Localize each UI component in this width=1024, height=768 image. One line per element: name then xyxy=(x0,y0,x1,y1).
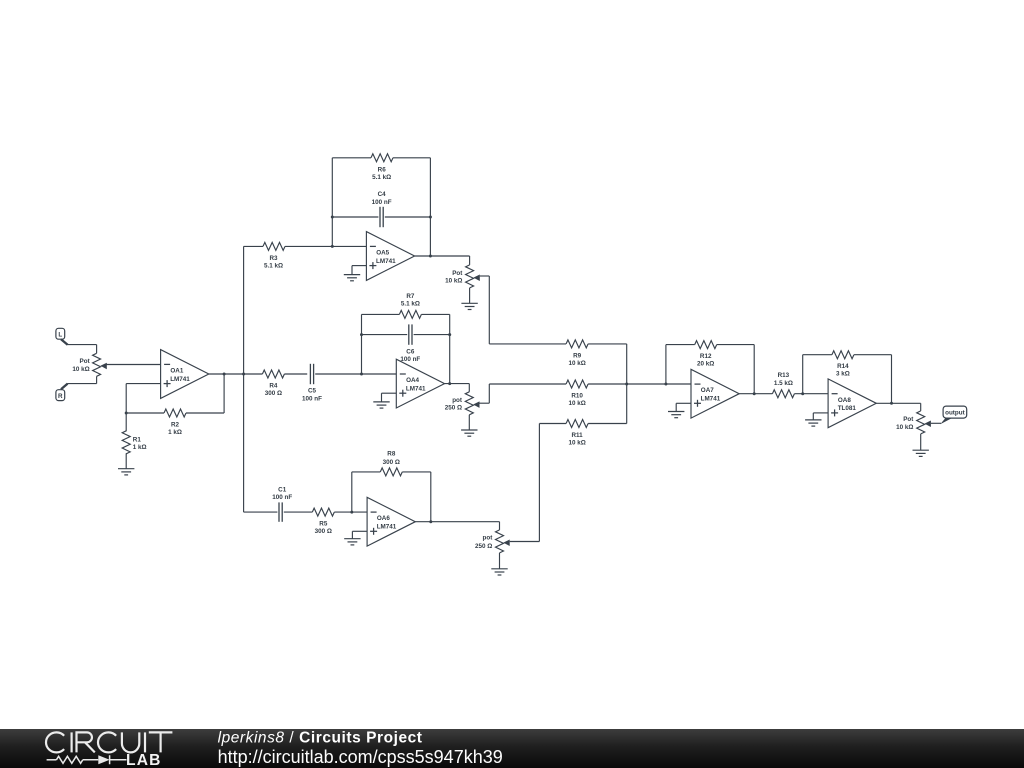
svg-text:LM741: LM741 xyxy=(701,396,721,403)
svg-text:R11: R11 xyxy=(571,432,583,439)
svg-text:R3: R3 xyxy=(269,255,278,262)
svg-text:100 nF: 100 nF xyxy=(302,395,322,402)
svg-text:LM741: LM741 xyxy=(406,386,426,393)
svg-text:R: R xyxy=(58,393,63,400)
svg-text:lperkins8 / Circuits Project: lperkins8 / Circuits Project xyxy=(218,729,423,746)
svg-text:output: output xyxy=(945,410,965,417)
svg-text:10 kΩ: 10 kΩ xyxy=(568,440,585,447)
svg-text:10 kΩ: 10 kΩ xyxy=(72,366,89,373)
svg-text:250 Ω: 250 Ω xyxy=(475,543,492,550)
svg-text:100 nF: 100 nF xyxy=(372,199,392,206)
svg-text:OA4: OA4 xyxy=(406,377,419,384)
svg-text:OA7: OA7 xyxy=(701,387,714,394)
svg-text:LM741: LM741 xyxy=(170,376,190,383)
svg-text:10 kΩ: 10 kΩ xyxy=(568,360,585,367)
svg-text:C4: C4 xyxy=(378,191,387,198)
svg-text:LAB: LAB xyxy=(126,752,162,768)
svg-text:OA8: OA8 xyxy=(838,397,851,404)
svg-text:R7: R7 xyxy=(406,293,415,300)
svg-text:TL081: TL081 xyxy=(838,405,857,412)
svg-text:Pot: Pot xyxy=(903,416,914,423)
svg-text:300 Ω: 300 Ω xyxy=(383,459,400,466)
svg-text:10 kΩ: 10 kΩ xyxy=(445,278,462,285)
svg-text:OA6: OA6 xyxy=(377,515,390,522)
svg-text:pot: pot xyxy=(483,534,494,541)
svg-text:R14: R14 xyxy=(837,363,849,370)
svg-text:10 kΩ: 10 kΩ xyxy=(568,400,585,407)
svg-text:OA5: OA5 xyxy=(376,250,389,257)
svg-text:R9: R9 xyxy=(573,352,582,359)
svg-text:5.1 kΩ: 5.1 kΩ xyxy=(401,301,420,308)
svg-text:300 Ω: 300 Ω xyxy=(315,528,332,535)
svg-text:R5: R5 xyxy=(319,521,328,528)
svg-text:R8: R8 xyxy=(387,451,396,458)
svg-text:3 kΩ: 3 kΩ xyxy=(836,371,850,378)
svg-text:Pot: Pot xyxy=(80,358,91,365)
svg-text:R4: R4 xyxy=(269,383,278,390)
svg-text:OA1: OA1 xyxy=(170,368,183,375)
svg-text:100 nF: 100 nF xyxy=(400,356,420,363)
svg-text:10 kΩ: 10 kΩ xyxy=(896,424,913,431)
svg-text:R10: R10 xyxy=(571,393,583,400)
svg-text:R6: R6 xyxy=(378,166,387,173)
svg-text:1 kΩ: 1 kΩ xyxy=(168,429,182,436)
svg-text:LM741: LM741 xyxy=(376,258,396,265)
svg-text:C1: C1 xyxy=(278,486,287,493)
svg-text:R13: R13 xyxy=(778,372,790,379)
svg-text:http://circuitlab.com/cpss5s94: http://circuitlab.com/cpss5s947kh39 xyxy=(218,747,503,767)
svg-text:C6: C6 xyxy=(406,348,415,355)
svg-text:20 kΩ: 20 kΩ xyxy=(697,361,714,368)
svg-text:300 Ω: 300 Ω xyxy=(265,390,282,397)
svg-text:250 Ω: 250 Ω xyxy=(445,405,462,412)
svg-text:1 kΩ: 1 kΩ xyxy=(133,444,147,451)
svg-text:LM741: LM741 xyxy=(377,524,397,531)
svg-text:pot: pot xyxy=(452,397,463,404)
svg-text:100 nF: 100 nF xyxy=(272,494,292,501)
svg-text:R12: R12 xyxy=(700,353,712,360)
svg-text:C5: C5 xyxy=(308,388,317,395)
svg-text:1.5 kΩ: 1.5 kΩ xyxy=(774,380,793,387)
svg-text:5.1 kΩ: 5.1 kΩ xyxy=(372,174,391,181)
svg-text:L: L xyxy=(58,332,62,339)
svg-text:R1: R1 xyxy=(133,436,142,443)
svg-text:5.1 kΩ: 5.1 kΩ xyxy=(264,262,283,269)
svg-text:R2: R2 xyxy=(171,422,180,429)
svg-text:Pot: Pot xyxy=(452,270,463,277)
